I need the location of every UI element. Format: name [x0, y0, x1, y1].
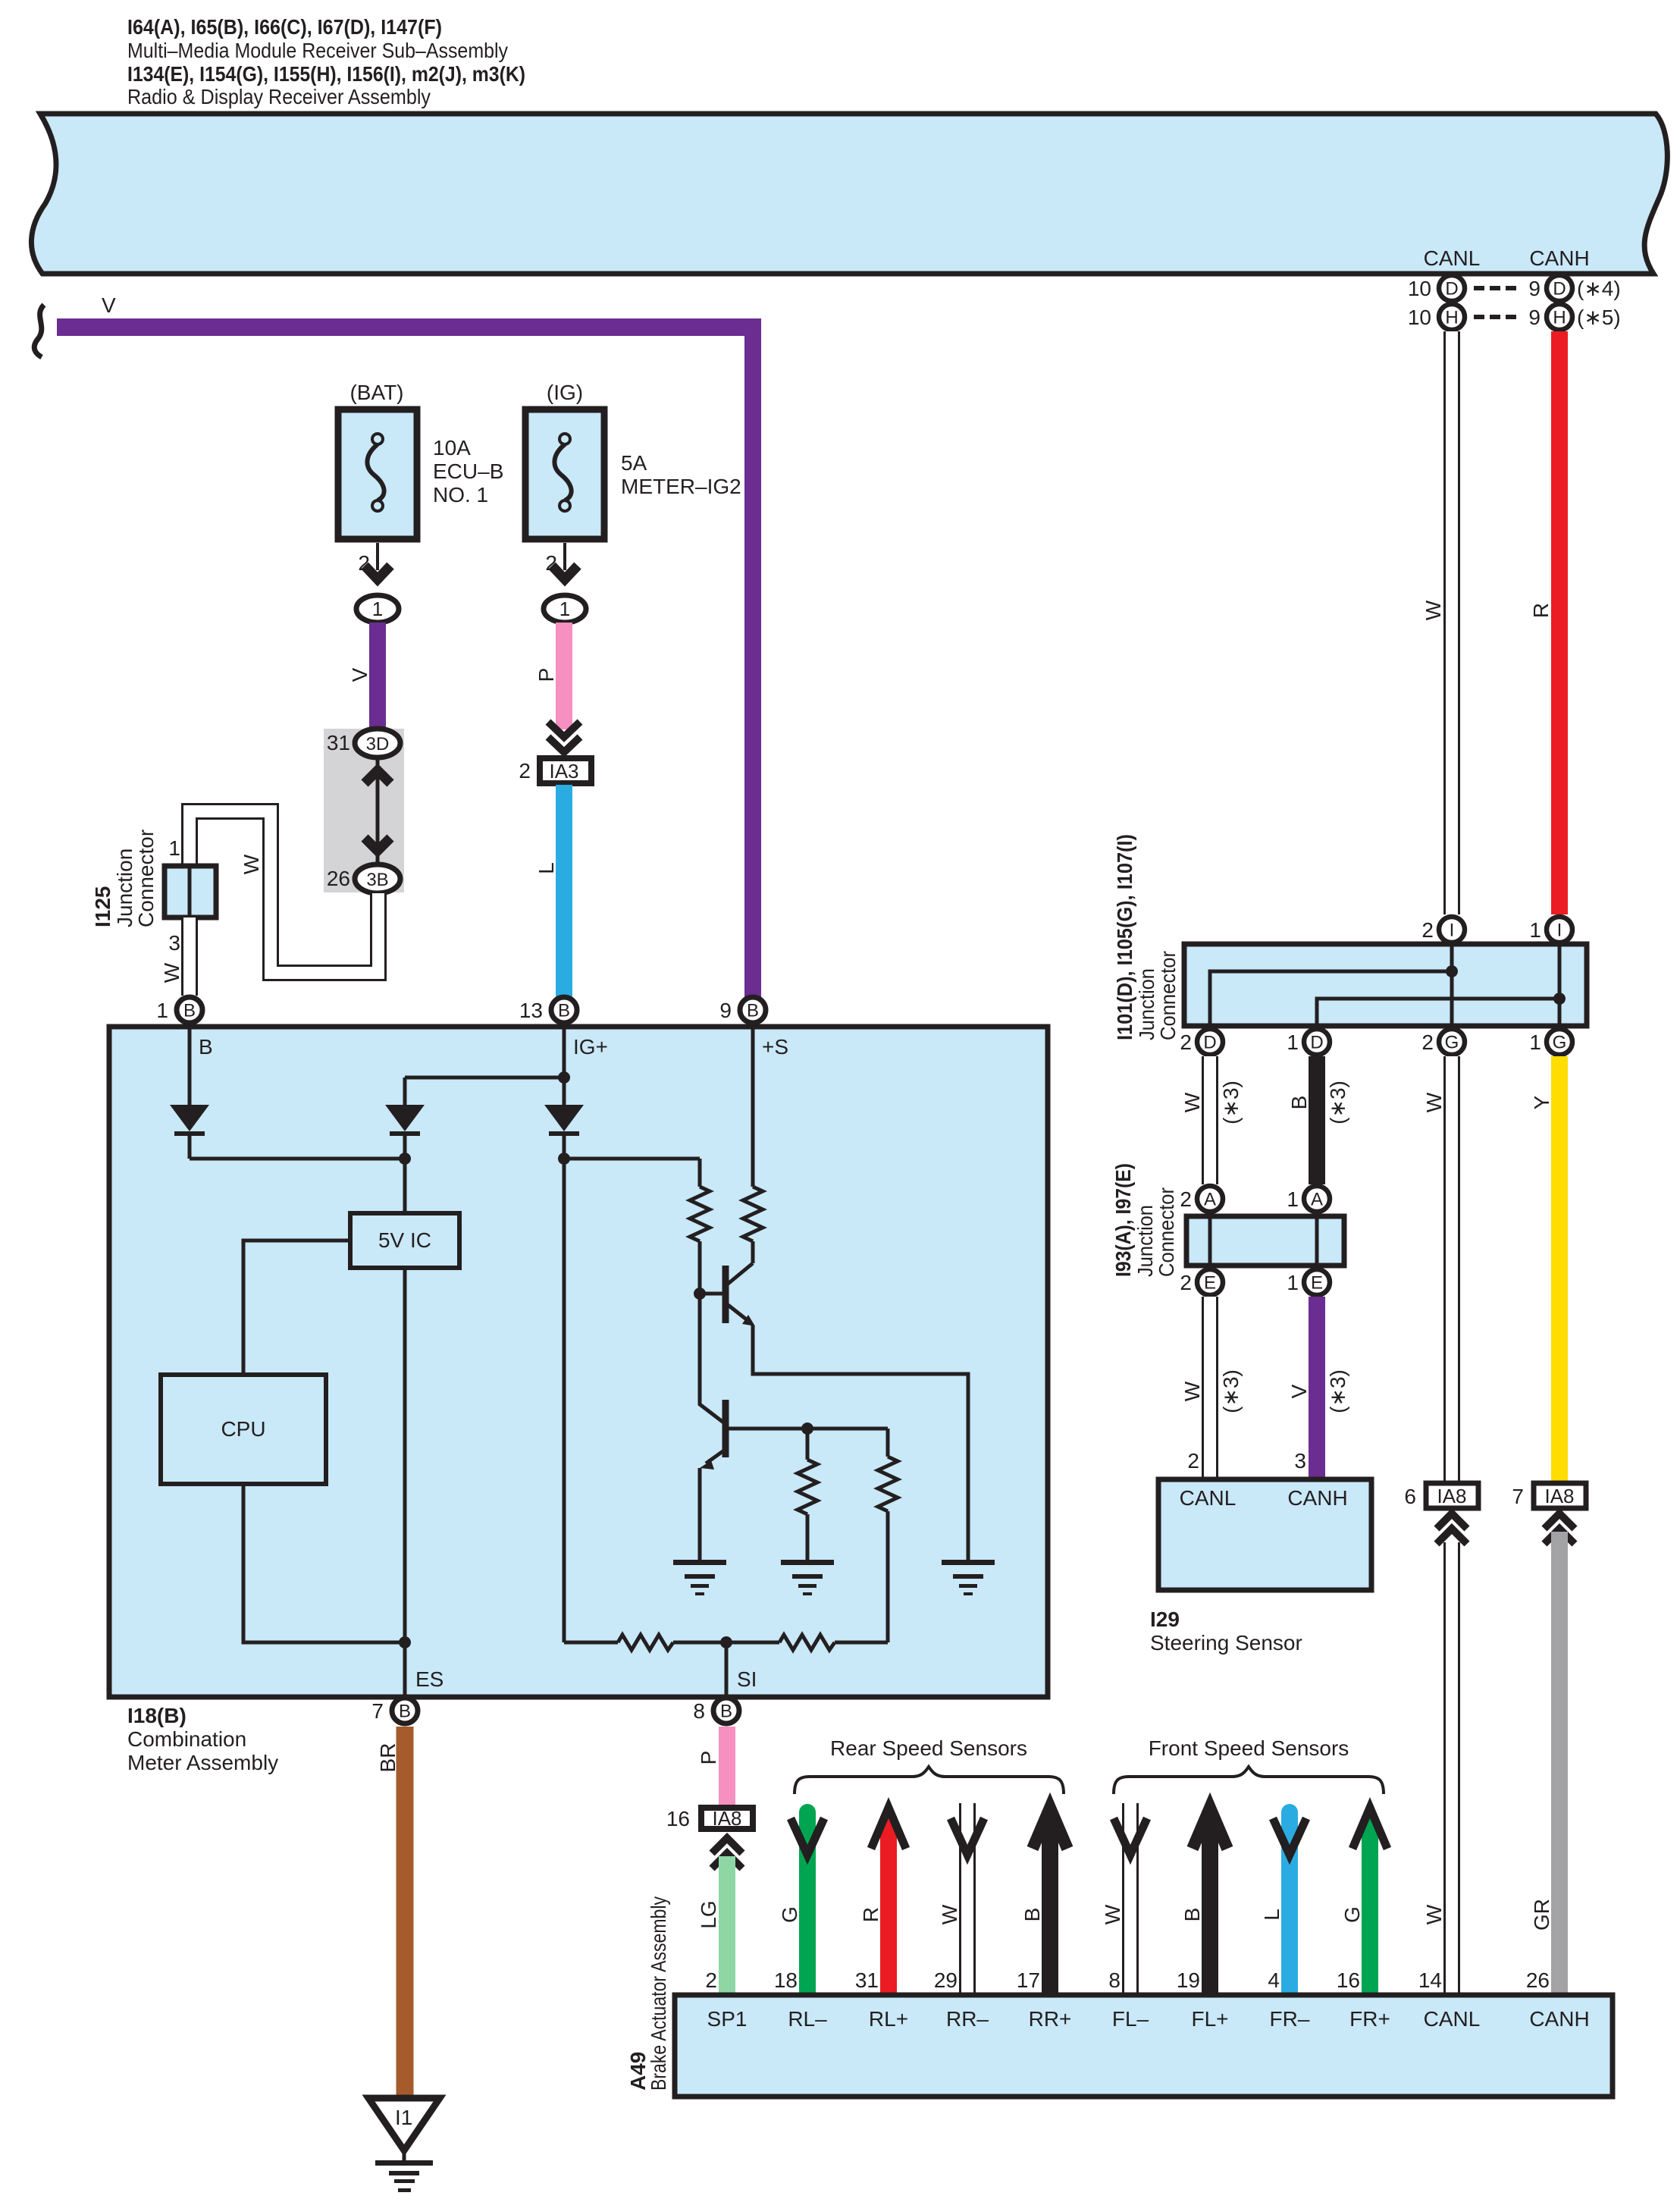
- svg-text:1: 1: [1529, 1030, 1541, 1054]
- svg-text:I134(E), I154(G), I155(H), I15: I134(E), I154(G), I155(H), I156(I), m2(J…: [127, 62, 525, 86]
- svg-text:26: 26: [327, 867, 350, 890]
- resistor R2 collector: [743, 1187, 763, 1241]
- svg-text:(∗3): (∗3): [1326, 1369, 1349, 1413]
- junction connector I93(A) I97(E) box: [1186, 1216, 1344, 1266]
- wire B with up arrow pin 17: [1042, 1816, 1058, 1993]
- wire W CANL vertical: [1443, 331, 1460, 914]
- wire W with down arrow pin 8: [1122, 1803, 1139, 1993]
- wire Q1 base node down to Q2 collector: [700, 1294, 726, 1424]
- label I125 Junction Connector: [91, 830, 158, 927]
- svg-text:9: 9: [719, 999, 732, 1022]
- regulator 5V IC box: [350, 1213, 459, 1268]
- wire G with down arrow pin 18: [799, 1804, 816, 1821]
- svg-text:B: B: [399, 1702, 411, 1722]
- svg-text:G: G: [778, 1906, 801, 1923]
- svg-text:1: 1: [1529, 918, 1541, 942]
- svg-text:P: P: [697, 1751, 720, 1765]
- svg-text:I29: I29: [1150, 1608, 1180, 1631]
- svg-text:(∗5): (∗5): [1577, 306, 1621, 329]
- svg-text:19: 19: [1177, 1968, 1200, 1992]
- wire W with down arrow pin 29: [959, 1803, 976, 1993]
- dashes row 1: [1474, 286, 1484, 290]
- double chevron into IA3: [548, 722, 580, 737]
- svg-text:V: V: [1287, 1384, 1311, 1398]
- wire R2 to Q1 collector: [751, 1241, 755, 1263]
- svg-text:B: B: [183, 1001, 196, 1021]
- svg-text:D: D: [1445, 279, 1458, 300]
- ground G3 inside meter: [942, 1560, 995, 1565]
- wire node to 5V IC: [403, 1159, 407, 1213]
- wire Y yellow G1 to IA8-7: [1551, 1056, 1568, 1484]
- wire CPU to ES node: [243, 1484, 405, 1642]
- wire W from 3B to I125 junction connector: [190, 811, 378, 973]
- connector oval 1 (BAT): [356, 595, 399, 623]
- transistor Q2: [722, 1400, 729, 1457]
- svg-text:14: 14: [1418, 1968, 1442, 1992]
- svg-text:(IG): (IG): [547, 381, 583, 404]
- svg-text:Rear Speed Sensors: Rear Speed Sensors: [830, 1736, 1027, 1760]
- svg-text:Junction: Junction: [1133, 1205, 1157, 1277]
- connector IA8 pin 16: [701, 1808, 753, 1829]
- through line I2-G2: [1450, 943, 1454, 1029]
- svg-text:H: H: [1553, 308, 1566, 328]
- wire Q2 emitter to ground: [698, 1468, 702, 1562]
- svg-text:RR+: RR+: [1029, 2007, 1072, 2031]
- svg-text:FL+: FL+: [1191, 2007, 1228, 2031]
- svg-text:Junction: Junction: [1135, 968, 1158, 1040]
- svg-text:2: 2: [1180, 1187, 1192, 1211]
- svg-text:I125: I125: [91, 886, 114, 928]
- wire W E2 to steering sensor: [1202, 1297, 1218, 1479]
- svg-text:2: 2: [1180, 1271, 1192, 1294]
- svg-text:IA8: IA8: [1437, 1485, 1466, 1507]
- svg-text:3D: 3D: [366, 734, 390, 754]
- svg-text:1: 1: [168, 836, 180, 860]
- wire P pink: [556, 623, 572, 729]
- wire BR brown to ground I1: [396, 1727, 414, 2098]
- svg-text:G: G: [1553, 1033, 1567, 1053]
- svg-text:D: D: [1553, 279, 1566, 300]
- wire node to resistor R1: [564, 1157, 700, 1161]
- svg-text:I1: I1: [395, 2106, 412, 2129]
- svg-text:29: 29: [934, 1968, 958, 1992]
- svg-text:B: B: [1020, 1908, 1044, 1922]
- wire SI to pin 8: [725, 1642, 729, 1697]
- svg-text:L: L: [1260, 1909, 1284, 1921]
- connector oval 1 (IG): [544, 595, 586, 623]
- svg-text:(∗3): (∗3): [1219, 1081, 1243, 1125]
- svg-text:CANL: CANL: [1424, 2007, 1481, 2031]
- wire node down to SI resistor row: [563, 1159, 566, 1642]
- diode D2: [385, 1105, 425, 1131]
- svg-text:1: 1: [156, 999, 168, 1022]
- svg-text:RL+: RL+: [869, 2007, 908, 2031]
- wire Q1 emitter to right ground run: [753, 1325, 968, 1562]
- label A49 Brake Actuator Assembly: [626, 1896, 670, 2091]
- svg-text:IA8: IA8: [1544, 1485, 1574, 1507]
- connector IA8 pin 6: [1426, 1483, 1478, 1508]
- wire diode D1 to node: [188, 1136, 192, 1159]
- svg-text:1: 1: [1287, 1271, 1299, 1294]
- svg-text:W: W: [938, 1904, 961, 1924]
- wire CPU to 5V IC: [243, 1241, 350, 1375]
- svg-text:Connector: Connector: [134, 830, 158, 927]
- svg-text:Y: Y: [1530, 1095, 1553, 1109]
- ground G1 inside meter: [673, 1560, 726, 1565]
- label I101 Junction Connector: [1113, 834, 1180, 1040]
- svg-text:31: 31: [855, 1968, 879, 1992]
- label I93 Junction Connector: [1111, 1163, 1178, 1277]
- wire R3 to ground: [806, 1514, 810, 1562]
- svg-text:V: V: [102, 293, 116, 317]
- svg-text:V: V: [348, 667, 371, 682]
- svg-text:Radio & Display Receiver Assem: Radio & Display Receiver Assembly: [127, 85, 431, 108]
- svg-text:D: D: [1310, 1033, 1323, 1053]
- svg-text:3: 3: [1294, 1449, 1306, 1473]
- wire LG light green to SP1: [719, 1856, 735, 1993]
- svg-text:5V IC: 5V IC: [378, 1228, 431, 1252]
- ground G2 inside meter: [781, 1560, 834, 1565]
- svg-text:H: H: [1445, 308, 1458, 328]
- wire B pin1 to diode: [188, 1026, 192, 1105]
- junction connector I101(D) I105(G) I107(I) box: [1184, 944, 1587, 1026]
- wire V purple E1 to steering sensor: [1309, 1297, 1325, 1479]
- svg-text:Connector: Connector: [1156, 951, 1180, 1040]
- wire GR gray IA8-7 to CANH: [1551, 1532, 1568, 1993]
- ground I1 symbol: [368, 2098, 440, 2150]
- svg-text:B: B: [1287, 1096, 1311, 1110]
- svg-text:IA8: IA8: [712, 1807, 741, 1830]
- svg-text:W: W: [1422, 1092, 1446, 1112]
- wire IG+ from pin13: [563, 1026, 566, 1105]
- svg-text:16: 16: [1337, 1968, 1360, 1992]
- wire diode D3 to node: [563, 1136, 566, 1159]
- svg-text:ECU–B: ECU–B: [433, 460, 503, 483]
- svg-text:I101(D), I105(G), I107(I): I101(D), I105(G), I107(I): [1113, 834, 1136, 1040]
- svg-text:2: 2: [1421, 1030, 1434, 1054]
- svg-text:I: I: [1557, 921, 1562, 941]
- svg-text:CPU: CPU: [221, 1417, 265, 1441]
- brake actuator assembly box A49: [675, 1995, 1613, 2097]
- svg-text:P: P: [534, 668, 558, 682]
- SI resistor row right: [779, 1635, 835, 1650]
- svg-text:D: D: [1203, 1033, 1216, 1053]
- arrow down to connector 1: [552, 566, 578, 579]
- svg-text:GR: GR: [1530, 1899, 1553, 1931]
- fuse 10A ECU-B NO. 1: [338, 409, 417, 539]
- svg-text:6: 6: [1404, 1485, 1416, 1508]
- resistor R1 base: [690, 1187, 710, 1241]
- svg-text:Brake Actuator Assembly: Brake Actuator Assembly: [647, 1896, 670, 2091]
- double chevron below IA8-6: [1437, 1513, 1467, 1529]
- svg-text:18: 18: [774, 1968, 798, 1992]
- wire B with up arrow pin 19: [1202, 1816, 1218, 1993]
- svg-text:3B: 3B: [366, 870, 388, 890]
- svg-text:RL–: RL–: [788, 2007, 827, 2031]
- wire W D2 to A2: [1202, 1056, 1218, 1184]
- node ES: [399, 1636, 411, 1648]
- pin 2 of fuse METER-IG2: [563, 543, 566, 570]
- svg-text:W: W: [1180, 1092, 1204, 1112]
- junction connector I125: [165, 866, 216, 917]
- wire +S from pin9 to R2: [751, 1026, 755, 1187]
- svg-text:4: 4: [1268, 1968, 1280, 1992]
- transistor Q1: [722, 1266, 729, 1323]
- arrow down to connector 1: [365, 566, 390, 579]
- svg-text:8: 8: [1108, 1968, 1121, 1992]
- svg-text:13: 13: [519, 999, 543, 1022]
- svg-text:FR–: FR–: [1270, 2007, 1310, 2031]
- svg-text:3: 3: [168, 931, 180, 955]
- svg-text:Front Speed Sensors: Front Speed Sensors: [1149, 1736, 1349, 1760]
- wire Q2 base to resistors: [726, 1427, 888, 1431]
- svg-text:A: A: [1311, 1190, 1323, 1210]
- svg-text:17: 17: [1017, 1968, 1040, 1992]
- svg-text:2: 2: [1180, 1030, 1192, 1054]
- svg-text:W: W: [240, 854, 263, 874]
- svg-text:IG+: IG+: [573, 1035, 608, 1059]
- wire L blue: [556, 785, 572, 997]
- svg-text:7: 7: [371, 1699, 384, 1723]
- resistor R4: [886, 1429, 890, 1457]
- SI resistor row left: [564, 1641, 618, 1645]
- fuse 5A METER-IG2: [525, 409, 604, 539]
- double-headed arrow between 3D and 3B: [376, 758, 380, 864]
- wire R CANH vertical: [1551, 331, 1568, 914]
- wire W IA8-6 to CANL: [1443, 1542, 1460, 1993]
- svg-text:W: W: [1180, 1381, 1204, 1401]
- svg-text:W: W: [1422, 1904, 1446, 1924]
- wire between row resistors: [673, 1641, 779, 1645]
- svg-text:8: 8: [693, 1699, 705, 1723]
- internal wire D2 to I2 line: [1210, 971, 1452, 1026]
- svg-text:ES: ES: [415, 1667, 444, 1691]
- svg-text:1: 1: [1287, 1030, 1299, 1054]
- svg-text:LG: LG: [697, 1900, 720, 1928]
- svg-text:B: B: [747, 1001, 759, 1021]
- double chevron below IA8-7: [1544, 1513, 1575, 1529]
- svg-text:(∗3): (∗3): [1219, 1369, 1243, 1413]
- svg-text:10: 10: [1408, 306, 1431, 329]
- radio and display receiver assembly bus band: [31, 114, 1667, 274]
- resistor R3: [806, 1429, 810, 1460]
- wire 5V IC to ES node: [403, 1268, 407, 1697]
- svg-text:10: 10: [1408, 277, 1431, 300]
- svg-text:R: R: [859, 1907, 882, 1922]
- connector IA8 pin 7: [1534, 1483, 1586, 1508]
- svg-text:CANL: CANL: [1424, 246, 1481, 270]
- diode D3: [544, 1105, 584, 1131]
- pin 2 of fuse ECU-B: [376, 543, 379, 570]
- svg-text:SP1: SP1: [707, 2007, 748, 2031]
- svg-text:Combination: Combination: [127, 1727, 246, 1751]
- svg-text:L: L: [534, 862, 558, 874]
- svg-text:(∗4): (∗4): [1577, 277, 1621, 300]
- svg-text:10A: 10A: [433, 436, 471, 460]
- svg-text:5A: 5A: [621, 451, 647, 475]
- svg-text:B: B: [199, 1035, 213, 1059]
- svg-text:Connector: Connector: [1155, 1187, 1178, 1277]
- svg-text:CANH: CANH: [1287, 1486, 1347, 1510]
- svg-text:A: A: [1204, 1190, 1216, 1210]
- steering sensor I29 box: [1158, 1479, 1371, 1590]
- wire R with up arrow pin 31: [880, 1816, 897, 1993]
- wire G with up arrow pin 16: [1362, 1816, 1378, 1993]
- combination meter assembly box I18(B): [109, 1027, 1048, 1697]
- svg-text:E: E: [1311, 1273, 1323, 1294]
- node on I2 line: [1446, 965, 1458, 977]
- wire diode D2 to node: [403, 1136, 407, 1159]
- wire R4 down to SI row: [886, 1511, 890, 1642]
- svg-text:2: 2: [519, 759, 531, 783]
- svg-text:SI: SI: [737, 1667, 757, 1691]
- svg-text:+S: +S: [762, 1035, 788, 1059]
- internal wire D1 to I1 line: [1317, 999, 1559, 1026]
- svg-text:FR+: FR+: [1349, 2007, 1390, 2031]
- svg-text:9: 9: [1528, 277, 1541, 300]
- node Q1 base: [694, 1288, 706, 1300]
- svg-text:CANH: CANH: [1529, 2007, 1589, 2031]
- wire P pink pin8 to IA8: [719, 1727, 735, 1805]
- svg-text:2: 2: [1421, 918, 1434, 942]
- wire V purple from radio: [34, 305, 44, 357]
- gray harness block 3D-3B: [324, 729, 404, 892]
- svg-text:Meter Assembly: Meter Assembly: [127, 1751, 278, 1774]
- svg-text:I: I: [1450, 921, 1455, 941]
- svg-text:FL–: FL–: [1112, 2007, 1149, 2031]
- CPU box: [161, 1375, 326, 1484]
- svg-text:16: 16: [666, 1807, 690, 1830]
- svg-text:2: 2: [1187, 1449, 1199, 1473]
- diode D1: [170, 1105, 209, 1131]
- svg-text:W: W: [1421, 600, 1445, 620]
- svg-text:(BAT): (BAT): [349, 381, 403, 404]
- svg-text:B: B: [1180, 1908, 1204, 1922]
- dashes row 2: [1474, 315, 1484, 319]
- through line I1-G1: [1558, 943, 1562, 1029]
- node SI: [720, 1636, 732, 1648]
- node IG+ branch: [558, 1071, 570, 1084]
- svg-text:W: W: [160, 962, 183, 983]
- svg-text:Multi–Media Module Receiver Su: Multi–Media Module Receiver Sub–Assembly: [127, 39, 508, 62]
- svg-text:Junction: Junction: [113, 848, 136, 927]
- svg-text:9: 9: [1528, 306, 1541, 329]
- svg-text:I18(B): I18(B): [127, 1704, 186, 1727]
- node on I1 line: [1553, 993, 1566, 1005]
- svg-text:NO. 1: NO. 1: [433, 483, 488, 507]
- svg-text:METER–IG2: METER–IG2: [621, 475, 741, 498]
- svg-text:G: G: [1340, 1906, 1364, 1923]
- wire B black D1 to A1: [1309, 1056, 1325, 1184]
- wire W I125 to meter pin 1: [181, 917, 198, 996]
- svg-text:B: B: [720, 1702, 732, 1722]
- wire W G2 to IA8-6: [1443, 1056, 1460, 1484]
- svg-text:7: 7: [1512, 1485, 1524, 1508]
- svg-text:1: 1: [559, 598, 570, 620]
- double chevron below IA8-16: [712, 1838, 742, 1853]
- node base-R3: [801, 1423, 813, 1435]
- wire V purple fuse to 3D: [369, 623, 386, 729]
- svg-text:R: R: [1529, 603, 1553, 618]
- svg-text:E: E: [1204, 1273, 1216, 1294]
- svg-text:1: 1: [372, 598, 383, 620]
- svg-text:CANL: CANL: [1180, 1486, 1236, 1510]
- wire L with down arrow pin 4: [1281, 1804, 1298, 1821]
- svg-text:CANH: CANH: [1529, 246, 1589, 270]
- svg-text:RR–: RR–: [946, 2007, 989, 2031]
- svg-text:G: G: [1445, 1033, 1459, 1053]
- svg-text:B: B: [558, 1001, 570, 1021]
- svg-text:31: 31: [327, 731, 350, 754]
- svg-text:Steering Sensor: Steering Sensor: [1150, 1631, 1302, 1655]
- svg-text:2: 2: [705, 1968, 717, 1992]
- svg-text:BR: BR: [376, 1743, 400, 1773]
- node under D3: [558, 1153, 570, 1165]
- svg-text:I93(A), I97(E): I93(A), I97(E): [1111, 1163, 1135, 1277]
- wire R1 to Q1 base node: [698, 1241, 702, 1294]
- svg-text:IA3: IA3: [549, 760, 578, 783]
- svg-text:(∗3): (∗3): [1326, 1081, 1349, 1125]
- svg-text:W: W: [1101, 1904, 1124, 1924]
- svg-text:I64(A), I65(B), I66(C), I67(D): I64(A), I65(B), I66(C), I67(D), I147(F): [127, 15, 442, 39]
- svg-text:1: 1: [1287, 1187, 1299, 1211]
- node diodes junction: [399, 1153, 411, 1165]
- connector IA3 pin 2: [540, 758, 591, 783]
- svg-text:26: 26: [1526, 1968, 1550, 1992]
